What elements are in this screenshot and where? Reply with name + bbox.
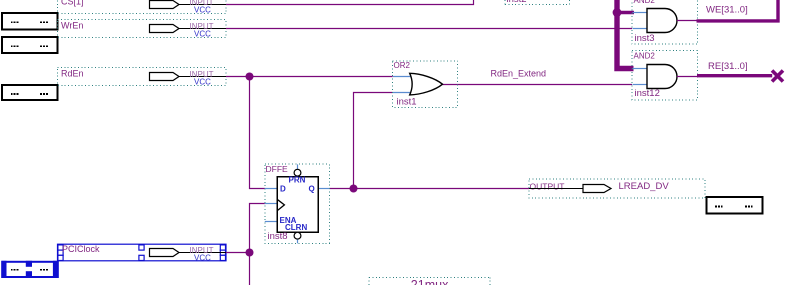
wire clock down off bottom	[249, 253, 251, 285]
svg-text:WrEn: WrEn	[61, 20, 83, 30]
svg-text:WE[31..0]: WE[31..0]	[706, 4, 748, 15]
svg-text:Q: Q	[309, 185, 315, 194]
wire RdEn to OR2	[226, 76, 393, 78]
svg-text:inst8: inst8	[268, 231, 288, 242]
svg-text:21mux: 21mux	[411, 278, 449, 285]
block box B2	[2, 37, 58, 53]
svg-text:inst1: inst1	[397, 97, 417, 108]
svg-text:CS[1]: CS[1]	[61, 0, 84, 6]
component 21mux (cut off at bottom)	[369, 277, 490, 285]
svg-text:RdEn: RdEn	[61, 69, 84, 79]
svg-text:PRN: PRN	[289, 176, 306, 185]
svg-text:D: D	[280, 185, 286, 194]
bus stub to inst3 input	[615, 11, 634, 14]
svg-text:AND2: AND2	[634, 0, 656, 5]
svg-text:VCC: VCC	[194, 6, 211, 15]
svg-text:VCC: VCC	[194, 30, 211, 39]
wire clock up to DFF clk	[250, 204, 265, 253]
svg-text:CLRN: CLRN	[285, 223, 307, 232]
svg-text:VCC: VCC	[194, 253, 211, 262]
svg-text:LREAD_DV: LREAD_DV	[619, 181, 670, 192]
node RdEn junction	[246, 73, 254, 81]
op gate AND2 inst3	[632, 0, 698, 44]
block box B4 (selected, blue handles)	[1, 261, 58, 278]
wire Q feedback up to OR2 input 2	[354, 93, 393, 189]
input pin PCIClock (selected)	[58, 244, 227, 262]
node Q junction	[350, 185, 358, 193]
svg-text:inst2: inst2	[507, 0, 527, 5]
input pin RdEn	[58, 68, 227, 87]
wire CS[1] to top edge	[226, 0, 474, 5]
block box B3	[2, 85, 58, 100]
wire inst3 output	[677, 20, 697, 22]
bus WE[31..0]	[697, 0, 779, 21]
block box B5 right (near LREAD_DV)	[707, 197, 763, 214]
node PCIClock junction	[246, 249, 254, 257]
block box B1 top-left	[2, 13, 58, 30]
svg-text:RE[31..0]: RE[31..0]	[708, 61, 748, 72]
svg-text:inst3: inst3	[635, 33, 655, 44]
bus RE[31..0]	[697, 74, 772, 77]
input pin CS[1]	[58, 0, 227, 15]
svg-text:OR2: OR2	[394, 61, 411, 70]
wire Q output to OUTPUT pin	[329, 188, 529, 190]
svg-text:PCIClock: PCIClock	[62, 244, 100, 254]
op gate OR2 inst1	[393, 61, 458, 108]
svg-text:DFFE: DFFE	[266, 164, 289, 174]
svg-text:VCC: VCC	[194, 78, 211, 87]
wire RdEn down to DFF D input	[250, 77, 265, 189]
svg-text:AND2: AND2	[634, 52, 656, 61]
svg-text:RdEn_Extend: RdEn_Extend	[491, 69, 547, 79]
wire inst12 output	[677, 76, 698, 78]
bus feeder vertical thick	[617, 0, 634, 69]
op gate AND2 inst12	[632, 50, 698, 99]
dangling X marker	[772, 71, 783, 82]
output pin LREAD_DV	[529, 179, 705, 198]
component inst2 (cut off at top)	[505, 0, 570, 5]
node bus junction	[613, 8, 622, 17]
wire RdEn_Extend OR2 output to AND2 inst12	[443, 84, 633, 86]
input pin WrEn	[58, 20, 227, 39]
wire PCIClock to junction	[226, 252, 250, 254]
svg-text:OUTPUT: OUTPUT	[530, 182, 565, 192]
flip-flop DFFE inst8	[265, 164, 330, 243]
svg-text:inst12: inst12	[635, 88, 660, 99]
wire WrEn to AND2 inst3	[226, 28, 632, 30]
